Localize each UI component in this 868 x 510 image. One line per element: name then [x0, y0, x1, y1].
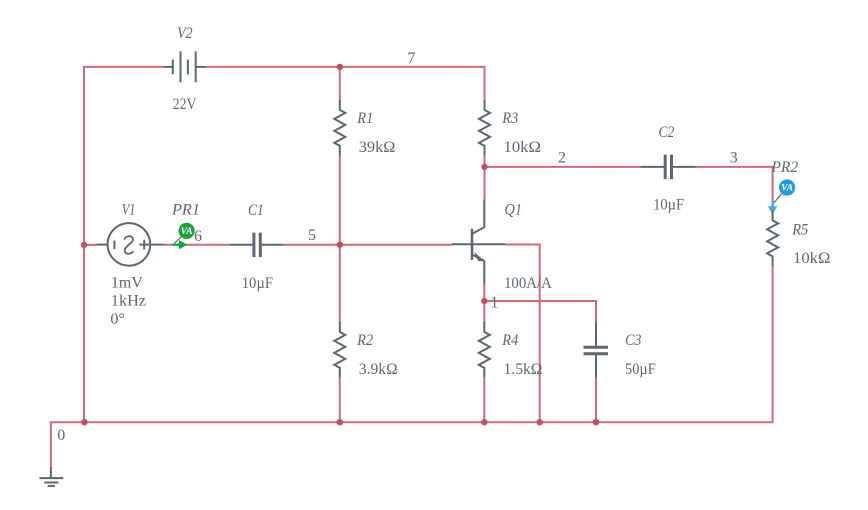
- svg-text:Q1: Q1: [504, 202, 522, 219]
- junction dot bottom rail / C3: [593, 419, 599, 425]
- wire node 1 to C3 top: [484, 301, 596, 322]
- svg-text:3.9kΩ: 3.9kΩ: [359, 361, 398, 378]
- junction dot bottom rail / left vertical: [81, 419, 87, 425]
- svg-text:22V: 22V: [173, 96, 197, 113]
- svg-text:10µF: 10µF: [653, 197, 684, 214]
- probe PR1 pointer line: [174, 237, 181, 244]
- svg-text:R1: R1: [356, 110, 373, 127]
- svg-text:R2: R2: [356, 332, 373, 349]
- svg-text:10kΩ: 10kΩ: [793, 250, 831, 267]
- resistor R4: [479, 322, 490, 378]
- wire R2 bottom to bottom rail: [339, 378, 341, 422]
- svg-text:10µF: 10µF: [242, 275, 273, 292]
- svg-text:C3: C3: [625, 332, 642, 349]
- svg-text:PR1: PR1: [171, 202, 200, 219]
- capacitor C3: [584, 322, 609, 378]
- wire R1 top link from rail: [339, 67, 341, 101]
- wire node 2 to C2 left: [485, 166, 641, 168]
- ground: [39, 467, 63, 486]
- svg-text:50µF: 50µF: [625, 361, 656, 378]
- svg-text:3: 3: [730, 150, 738, 167]
- resistor R5: [767, 210, 778, 266]
- svg-text:VA: VA: [181, 227, 193, 237]
- probe PR2 pointer line: [774, 194, 782, 203]
- svg-text:100A/A: 100A/A: [504, 275, 552, 292]
- junction dot bottom rail / R4: [481, 419, 487, 425]
- junction dot node 2 at collector: [481, 164, 487, 170]
- battery V2: [164, 51, 206, 82]
- svg-text:10kΩ: 10kΩ: [504, 139, 542, 156]
- svg-text:7: 7: [407, 50, 415, 67]
- AC source V1: [97, 223, 164, 266]
- svg-text:1.5kΩ: 1.5kΩ: [504, 361, 543, 378]
- wire V1 left lead stub: [84, 244, 97, 246]
- resistor R1: [334, 100, 345, 156]
- svg-text:1kHz: 1kHz: [111, 293, 146, 310]
- probe PR1 arrow: [173, 240, 188, 249]
- probe PR2 VA badge: [779, 179, 795, 195]
- wire R3 bottom through node 2 to Q1 collector: [484, 156, 486, 200]
- svg-text:1: 1: [490, 295, 498, 312]
- junction dot top rail / R1: [337, 64, 343, 70]
- junction dot bottom rail / R2: [337, 419, 343, 425]
- svg-text:PR2: PR2: [770, 159, 798, 176]
- svg-text:0: 0: [57, 427, 65, 444]
- wire C3 bottom to bottom rail: [595, 378, 597, 423]
- probe PR1 VA badge: [179, 223, 195, 239]
- wire R1 bottom through node 5 to R2 top: [339, 156, 341, 323]
- svg-text:V2: V2: [177, 25, 193, 42]
- wire R4 bottom to bottom rail: [483, 378, 485, 422]
- capacitor C1: [230, 233, 284, 257]
- svg-text:5: 5: [308, 227, 316, 244]
- wire Q1 emitter to node 1 and R4 top: [483, 285, 485, 323]
- svg-text:R5: R5: [791, 222, 808, 239]
- svg-text:6: 6: [194, 228, 202, 245]
- svg-text:R3: R3: [501, 110, 518, 127]
- svg-text:2: 2: [558, 150, 566, 167]
- junction dot node 1 at emitter: [481, 298, 487, 304]
- svg-text:V1: V1: [122, 202, 136, 219]
- junction dot left rail / V1: [81, 242, 87, 248]
- probe PR2 arrow: [768, 200, 777, 215]
- junction dot node 5 at R1-R2 column: [337, 242, 343, 248]
- svg-text:1mV: 1mV: [111, 274, 143, 291]
- svg-text:VA: VA: [781, 184, 793, 194]
- svg-text:C1: C1: [248, 202, 264, 219]
- wire V1 right to C1: [164, 244, 230, 246]
- junction dot bottom rail / base branch: [537, 419, 543, 425]
- svg-text:C2: C2: [659, 124, 675, 141]
- wire right of Q1 base down to bottom rail: [506, 245, 540, 423]
- svg-text:0°: 0°: [110, 311, 125, 328]
- wire top rail from V2 to top-right corner down to R3 top: [206, 67, 485, 100]
- resistor R3: [479, 100, 490, 156]
- resistor R2: [334, 322, 345, 378]
- wire C1 to Q1 base (net 5): [284, 244, 452, 246]
- transistor Q1: [452, 200, 506, 285]
- svg-text:R4: R4: [501, 332, 518, 349]
- wire R5 bottom along bottom rail to ground drop: [51, 266, 773, 467]
- wire C2 right through node 3 corner down to R5 top: [696, 167, 773, 211]
- capacitor C2: [640, 155, 696, 179]
- svg-text:39kΩ: 39kΩ: [359, 139, 396, 156]
- transistor Q1 emitter arrowhead: [474, 252, 485, 261]
- wire top rail left of V2 and left vertical rail down to bottom: [84, 67, 164, 422]
